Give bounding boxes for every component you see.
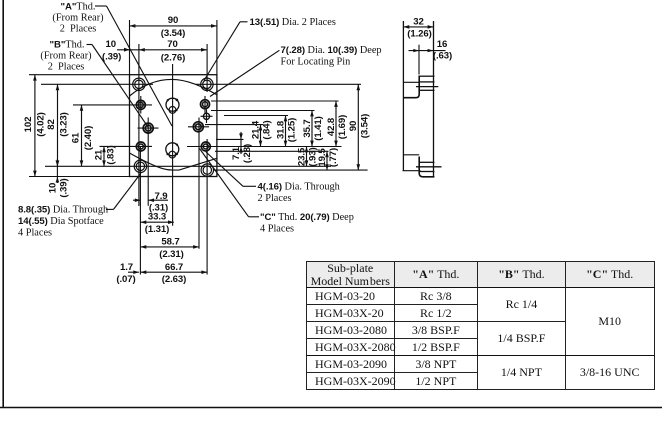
locating pin hole 7 dia (203, 113, 209, 119)
spec table (306, 261, 655, 390)
leader 13 dia (240, 21, 248, 23)
dimension 7.1 right (240, 132, 242, 154)
svg-text:4 Places: 4 Places (260, 224, 294, 235)
dimension 90 top (130, 25, 217, 27)
svg-text:7.1: 7.1 (231, 146, 242, 160)
svg-text:19.5: 19.5 (317, 148, 328, 167)
svg-text:61: 61 (71, 132, 82, 143)
leader 4 dia through (243, 185, 256, 187)
port hole A top-left (136, 100, 145, 109)
centerline column right holes upper (206, 44, 208, 92)
svg-text:33.3: 33.3 (148, 211, 166, 222)
svg-text:(.39): (.39) (102, 52, 121, 63)
side view left edge (402, 21, 404, 171)
dimension 23.5 right (306, 147, 308, 167)
svg-text:13(.51) Dia. 2 Places: 13(.51) Dia. 2 Places (250, 17, 336, 28)
centerline column center ports (172, 64, 174, 226)
page border left (2, 0, 4, 408)
dimension 21.4 right (260, 125, 262, 147)
dimension 42.8 right (335, 101, 337, 147)
svg-text:(1.69): (1.69) (337, 115, 348, 139)
svg-text:For Locating Pin: For Locating Pin (281, 57, 351, 68)
leader 7 dia locating pin (210, 50, 279, 96)
side view bottom port threads (419, 161, 434, 163)
svg-text:(.39): (.39) (58, 178, 69, 197)
svg-text:2 Places: 2 Places (60, 24, 97, 35)
svg-text:7(.28) Dia. 10(.39) Deep: 7(.28) Dia. 10(.39) Deep (281, 45, 382, 56)
extension top hole row (41, 83, 153, 85)
svg-text:35.7: 35.7 (302, 119, 313, 137)
leader B thread (87, 44, 93, 46)
port hole T bottom-center (166, 143, 179, 156)
dimension 21 left (103, 146, 105, 166)
side view top port threads (419, 75, 434, 77)
tick port B vertical (204, 96, 206, 114)
mounting hole bottom-left (8.8 dia / 14 spotface) (134, 160, 146, 172)
dimension 10 bottom-left (56, 159, 58, 183)
extension right 7.1 top (216, 138, 244, 140)
dimension 61 left (81, 105, 83, 166)
tick mid-right hole horizontal (188, 126, 209, 128)
svg-text:(1.25): (1.25) (287, 118, 298, 142)
C thread hole mid-right (193, 122, 203, 132)
mounting hole top-left (13 dia spotface) (133, 78, 145, 90)
side view bottom port cavity (403, 154, 419, 156)
extension low hole row right (187, 146, 342, 148)
dimension 19.5 right (326, 151, 328, 170)
extension bottom-right hole row (213, 169, 368, 171)
svg-text:90: 90 (168, 15, 178, 26)
svg-text:8.8(.35) Dia. Through: 8.8(.35) Dia. Through (18, 205, 109, 216)
svg-text:(.07): (.07) (116, 274, 135, 285)
extension low hole row left (100, 145, 153, 147)
svg-text:(2.31): (2.31) (159, 249, 183, 260)
svg-text:(1.26): (1.26) (407, 29, 431, 40)
tick port A vertical (140, 96, 142, 114)
svg-text:4(.16) Dia. Through: 4(.16) Dia. Through (258, 182, 341, 193)
dimension 70 and 10 top (117, 49, 139, 51)
svg-text:23.5: 23.5 (296, 147, 307, 166)
tick locating pin vertical (206, 110, 208, 124)
svg-text:10: 10 (48, 183, 59, 193)
svg-text:2 Places: 2 Places (48, 62, 85, 73)
dimension 35.7 right (311, 111, 313, 147)
leader 8.8 dia spotface (106, 208, 114, 210)
centerline column mid-right C hole (198, 118, 200, 249)
svg-text:66.7: 66.7 (165, 262, 183, 273)
svg-text:21: 21 (94, 149, 105, 160)
svg-text:(.83): (.83) (105, 145, 116, 164)
extension right 35.7 top (211, 110, 315, 112)
extension plate left edge up (129, 20, 131, 75)
extension plate bottom to left (29, 176, 130, 178)
svg-text:(4.02): (4.02) (35, 112, 46, 136)
svg-text:(1.41): (1.41) (313, 116, 324, 140)
C thread hole mid-left (143, 123, 153, 133)
svg-text:2 Places: 2 Places (258, 193, 292, 204)
dimension 90 right (357, 84, 359, 170)
extension right 31.8 top (224, 115, 288, 117)
centerline column bottom-left hole (139, 146, 141, 275)
extension plate top to left (29, 74, 130, 76)
svg-text:(2.63): (2.63) (162, 274, 186, 285)
side view top port cavity (403, 81, 419, 83)
extension port row left (73, 104, 152, 106)
svg-text:(1.31): (1.31) (145, 224, 169, 235)
tick locating pin horizontal (201, 115, 213, 117)
svg-text:(3.23): (3.23) (58, 112, 69, 136)
svg-text:1.7: 1.7 (120, 262, 133, 273)
dimension 33.3 bottom (140, 221, 174, 223)
dimension 102 left (34, 75, 36, 177)
page border bottom (0, 407, 662, 409)
svg-text:"A"Thd.: "A"Thd. (61, 2, 96, 13)
centerline column top-left hole (138, 44, 140, 206)
svg-text:"B"Thd.: "B"Thd. (50, 40, 85, 51)
side view right edge (433, 21, 435, 177)
svg-text:(.77): (.77) (328, 148, 339, 167)
centerline column right holes lower (206, 139, 208, 275)
svg-text:(From Rear): (From Rear) (52, 13, 103, 24)
svg-text:58.7: 58.7 (161, 236, 179, 247)
svg-text:16: 16 (437, 39, 447, 50)
leader C thread (249, 216, 259, 218)
plate outline front view (130, 75, 217, 177)
plate face contour top (130, 79, 217, 96)
tick mid-left hole horizontal (138, 127, 159, 129)
port hole B top-right (201, 100, 210, 109)
svg-text:(.63): (.63) (433, 51, 452, 62)
svg-text:31.8: 31.8 (275, 120, 286, 139)
dimension 7.9 bottom (133, 199, 140, 201)
svg-text:4 Places: 4 Places (18, 228, 52, 239)
svg-text:90: 90 (348, 121, 359, 131)
centerline column mid-left C hole (147, 118, 149, 206)
leader A thread (95, 5, 107, 7)
dimension 31.8 right (285, 116, 287, 147)
mounting hole top-right (13 dia spotface) (201, 78, 213, 90)
side view dimension 16 (409, 50, 446, 52)
port hole P top-center (166, 98, 179, 111)
plate face contour bottom (130, 153, 217, 170)
svg-text:32: 32 (413, 16, 423, 27)
side view pin centerline (418, 45, 420, 75)
svg-text:(2.40): (2.40) (83, 126, 94, 150)
dimension 58.7 bottom (140, 246, 199, 248)
C thread hole low-left (136, 142, 145, 151)
svg-text:21.4: 21.4 (250, 120, 261, 139)
svg-text:70: 70 (167, 39, 177, 50)
svg-text:14(.55) Dia Spotface: 14(.55) Dia Spotface (18, 216, 104, 227)
svg-text:(.28): (.28) (242, 144, 253, 163)
svg-text:7.9: 7.9 (154, 191, 167, 202)
dimension 66.7 bottom (140, 271, 207, 273)
extension right 21.4 top (205, 124, 263, 126)
svg-text:"C" Thd. 20(.79) Deep: "C" Thd. 20(.79) Deep (260, 212, 354, 223)
svg-text:102: 102 (23, 117, 34, 133)
dimension 82 left (57, 84, 59, 166)
svg-text:10: 10 (106, 39, 116, 50)
C thread hole low-right (201, 142, 210, 151)
extension right 42.8 top (211, 100, 339, 102)
extension plate right edge up (216, 20, 218, 75)
mounting hole bottom-right (8.8 dia / 14 spotface) (201, 164, 213, 176)
svg-text:(3.54): (3.54) (161, 28, 185, 39)
svg-text:(From Rear): (From Rear) (40, 51, 91, 62)
svg-text:42.8: 42.8 (326, 117, 337, 136)
dimension 1.7 bottom (128, 271, 139, 273)
extension right 19.5 top (215, 150, 329, 152)
svg-text:(.84): (.84) (262, 120, 273, 139)
side view dimension 32 (403, 26, 433, 28)
svg-text:(2.76): (2.76) (161, 53, 185, 64)
extension bottom-left hole row long (45, 165, 331, 167)
svg-text:(3.54): (3.54) (360, 114, 371, 138)
svg-text:82: 82 (46, 119, 57, 129)
